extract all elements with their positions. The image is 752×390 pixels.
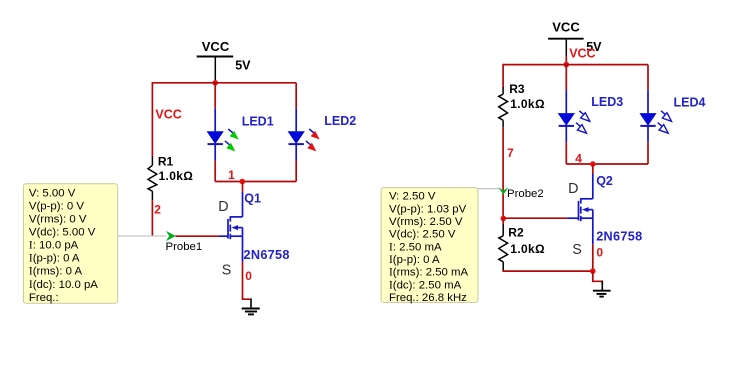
probe readout box Probe2 xyxy=(381,188,478,303)
resistor R2 xyxy=(499,218,508,270)
svg-text:I(rms): 0 A: I(rms): 0 A xyxy=(29,266,83,278)
svg-text:0: 0 xyxy=(245,269,252,283)
wire: probe to gate of Q1 xyxy=(175,235,219,237)
svg-text:2: 2 xyxy=(154,203,161,217)
LED2 xyxy=(288,83,320,182)
svg-text:LED1: LED1 xyxy=(242,114,274,128)
svg-text:V(p-p): 1.03 pV: V(p-p): 1.03 pV xyxy=(389,203,467,215)
svg-text:I(dc): 10.0 pA: I(dc): 10.0 pA xyxy=(29,279,98,291)
svg-text:1: 1 xyxy=(228,168,235,182)
junction dot at VCC node (right) xyxy=(564,62,570,68)
svg-text:V: 5.00 V: V: 5.00 V xyxy=(29,187,76,199)
transistor Q2 (2N6758 NMOS) xyxy=(568,174,593,244)
probe Probe1 (green arrow) xyxy=(166,231,176,241)
svg-text:VCC: VCC xyxy=(552,20,580,35)
ground (left) xyxy=(242,299,260,315)
svg-text:I: 10.0 pA: I: 10.0 pA xyxy=(29,240,79,252)
wire: gate wire to Q2 xyxy=(503,217,567,219)
LED4 xyxy=(639,65,671,164)
Q2 body arrow xyxy=(582,207,589,212)
svg-text:R1: R1 xyxy=(158,154,174,168)
svg-text:I(p-p): 0 A: I(p-p): 0 A xyxy=(389,254,440,266)
svg-text:I(p-p): 0 A: I(p-p): 0 A xyxy=(29,253,80,265)
svg-text:4: 4 xyxy=(575,151,582,165)
svg-text:0: 0 xyxy=(596,246,603,260)
svg-text:S: S xyxy=(222,262,232,278)
LED1 xyxy=(207,83,239,182)
svg-text:Q1: Q1 xyxy=(244,192,261,206)
svg-text:V(rms): 2.50 V: V(rms): 2.50 V xyxy=(389,216,463,228)
junction dot source node xyxy=(590,268,596,274)
wire: source node to ground xyxy=(593,271,603,281)
svg-text:V(dc): 5.00 V: V(dc): 5.00 V xyxy=(29,227,96,239)
wire: left branch to R3 xyxy=(502,64,504,88)
svg-text:1.0kΩ: 1.0kΩ xyxy=(159,169,194,183)
svg-text:VCC: VCC xyxy=(155,107,181,121)
wire: left branch down to R1 xyxy=(151,82,153,157)
junction dot node 1 xyxy=(240,179,246,185)
svg-text:VCC: VCC xyxy=(202,39,230,54)
svg-text:Probe1: Probe1 xyxy=(166,241,203,253)
junction dot at VCC node (left) xyxy=(213,80,219,86)
probe leader line (Probe2 to readout box) xyxy=(478,188,500,190)
svg-text:I(dc): 2.50 mA: I(dc): 2.50 mA xyxy=(389,279,462,291)
svg-text:5V: 5V xyxy=(235,59,251,73)
probe Probe2 (green arrow, pointing down) xyxy=(498,187,508,194)
junction dot node 4 xyxy=(590,161,596,167)
probe readout box Probe1 xyxy=(23,184,117,303)
svg-text:R3: R3 xyxy=(509,82,525,96)
junction dot at gate node (right) xyxy=(501,216,507,222)
svg-text:Freq.:: Freq.: xyxy=(29,292,59,304)
wire: node 1 to Q1 drain xyxy=(242,182,244,192)
ground (right) xyxy=(593,281,611,297)
resistor R1 xyxy=(148,157,157,201)
LED3 xyxy=(558,65,590,164)
wire: bottom of LED loop (node 4) xyxy=(566,163,648,165)
svg-text:2N6758: 2N6758 xyxy=(596,230,642,244)
svg-text:Probe2: Probe2 xyxy=(507,188,544,200)
svg-text:7: 7 xyxy=(507,146,514,160)
wire: R3 to gate node xyxy=(502,127,504,218)
svg-text:2N6758: 2N6758 xyxy=(244,248,290,262)
wire: Q2 source red part xyxy=(592,244,594,271)
probe leader line (Probe1 to readout box) xyxy=(118,235,167,237)
svg-text:LED2: LED2 xyxy=(324,114,356,128)
svg-text:V(p-p): 0 V: V(p-p): 0 V xyxy=(29,201,84,213)
wire: R1 bottom to gate corner xyxy=(151,200,153,236)
wire: node 4 to Q2 drain xyxy=(592,164,594,174)
Q1 body arrow xyxy=(232,225,239,230)
wire: top rail right circuit xyxy=(503,64,648,66)
svg-text:D: D xyxy=(218,199,228,215)
svg-text:R2: R2 xyxy=(508,225,524,239)
svg-text:I(rms): 2.50 mA: I(rms): 2.50 mA xyxy=(389,267,469,279)
wire: bottom rail R2 to source node xyxy=(503,270,593,271)
power symbol VCC (left) xyxy=(197,39,251,83)
wire: bottom of LED loop (node 1) xyxy=(215,181,296,183)
svg-text:LED4: LED4 xyxy=(674,96,706,110)
svg-text:I: 2.50 mA: I: 2.50 mA xyxy=(389,241,442,253)
wire: VCC stem red part xyxy=(565,56,567,65)
svg-text:LED3: LED3 xyxy=(591,95,623,109)
svg-text:D: D xyxy=(568,181,578,197)
svg-text:VCC: VCC xyxy=(569,46,595,60)
wire: top rail left circuit xyxy=(152,82,296,84)
power symbol VCC (right) xyxy=(548,20,602,56)
svg-text:1.0kΩ: 1.0kΩ xyxy=(510,242,545,256)
resistor R3 xyxy=(499,87,508,127)
svg-text:Freq.: 26.8 kHz: Freq.: 26.8 kHz xyxy=(389,292,467,304)
wire: Q1 source to ground xyxy=(243,262,252,299)
svg-text:V: 2.50 V: V: 2.50 V xyxy=(389,191,436,203)
svg-text:V(dc): 2.50 V: V(dc): 2.50 V xyxy=(389,229,456,241)
svg-text:V(rms): 0 V: V(rms): 0 V xyxy=(29,214,87,226)
svg-text:Q2: Q2 xyxy=(596,174,613,188)
transistor Q1 (2N6758 NMOS) xyxy=(219,192,243,262)
svg-text:S: S xyxy=(572,242,582,258)
svg-text:1.0kΩ: 1.0kΩ xyxy=(510,97,545,111)
